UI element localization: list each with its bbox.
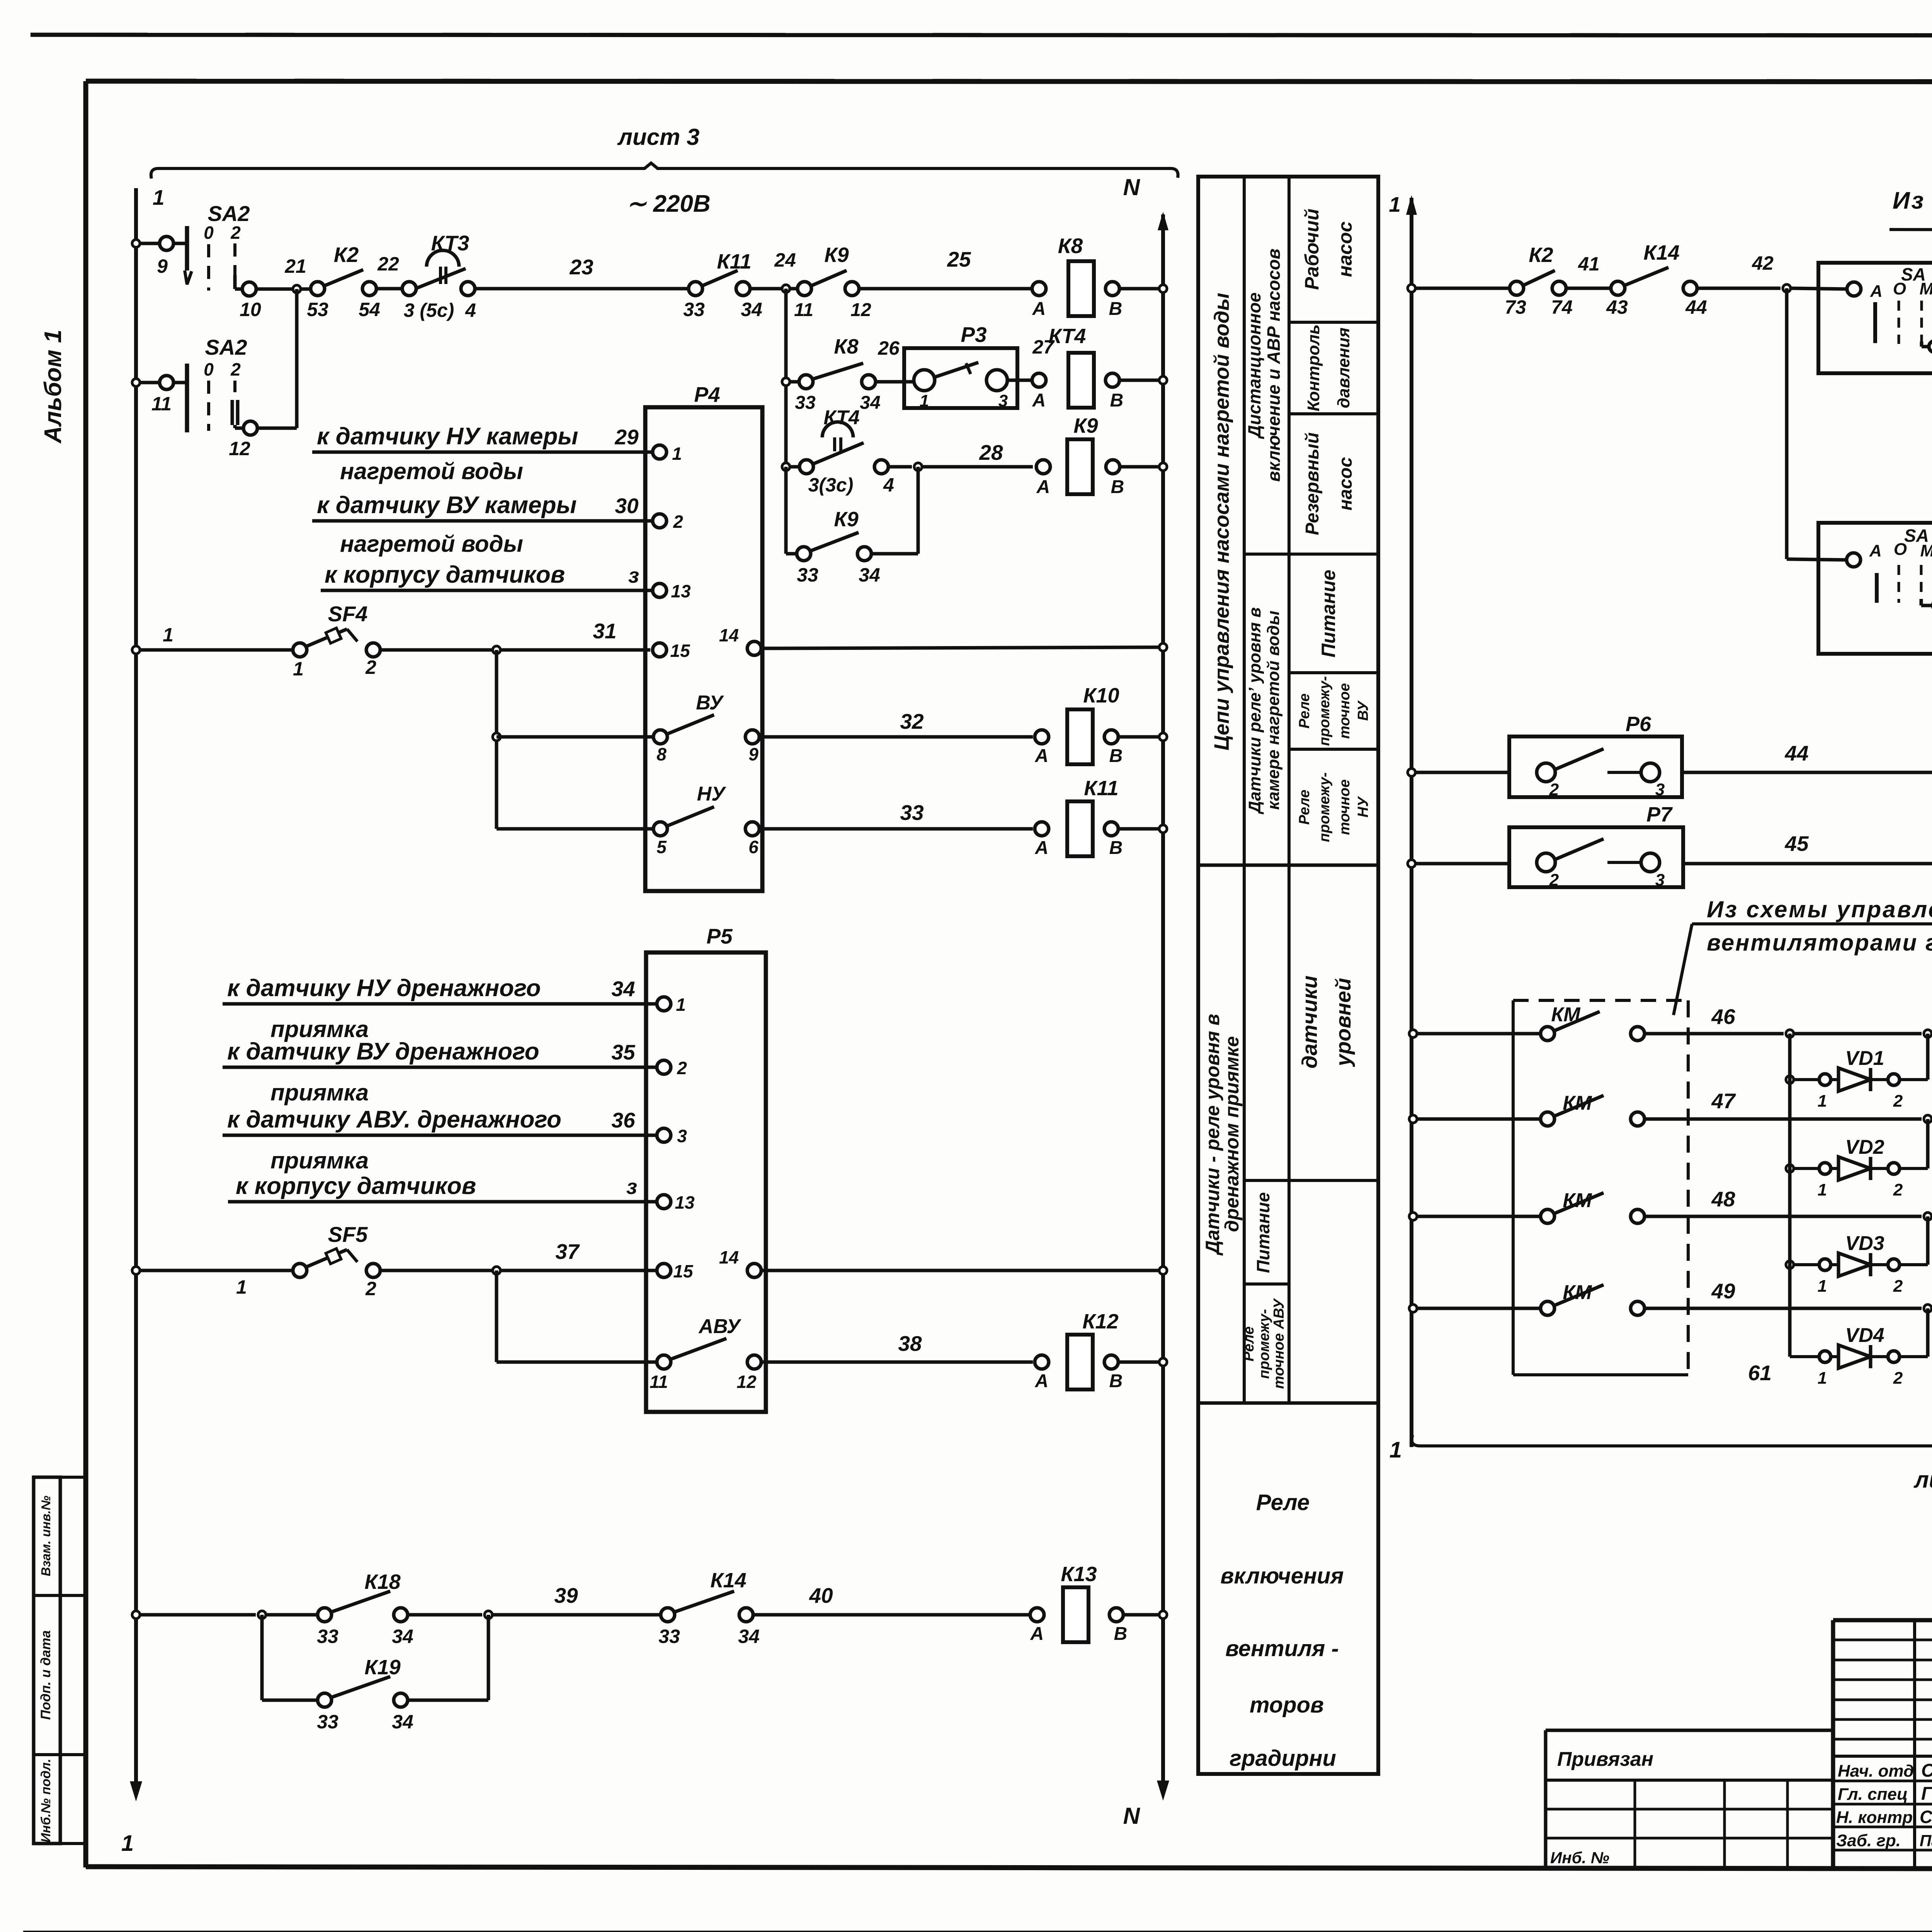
svg-text:32: 32 <box>900 709 924 733</box>
svg-text:1: 1 <box>293 658 304 680</box>
vertical 42 branch down to SA box 2 <box>1785 288 1789 559</box>
svg-text:А: А <box>1032 299 1046 319</box>
svg-text:34: 34 <box>738 1626 760 1647</box>
bus 1 left phase <box>134 188 138 1793</box>
svg-text:44: 44 <box>1784 741 1808 765</box>
switch SA2 lower common bar <box>185 364 189 432</box>
svg-text:Питание: Питание <box>1318 570 1339 657</box>
svg-text:К2: К2 <box>1529 243 1553 267</box>
contact K18 row <box>132 1611 140 1619</box>
wire 33 relay K11 coil <box>760 827 1033 831</box>
left margin sidebar strip <box>34 1477 60 1844</box>
wire 42 <box>1696 287 1781 290</box>
contact KM row 48 <box>1409 1213 1417 1220</box>
svg-text:промежу-: промежу- <box>1316 676 1333 746</box>
auxiliary switch P6 <box>1408 769 1415 776</box>
svg-text:35: 35 <box>611 1040 636 1064</box>
wire from node 21 down to SA2 lower output 12 <box>295 289 299 428</box>
svg-text:3: 3 <box>1655 871 1665 889</box>
svg-text:2: 2 <box>1549 780 1559 799</box>
svg-text:54: 54 <box>359 299 380 320</box>
svg-text:44: 44 <box>1685 296 1707 318</box>
svg-text:34: 34 <box>392 1626 413 1647</box>
svg-text:1: 1 <box>1389 192 1401 216</box>
svg-text:В: В <box>1109 838 1123 858</box>
svg-text:НУ: НУ <box>697 783 727 805</box>
svg-text:SA2: SA2 <box>205 335 247 359</box>
contact K19 parallel branch <box>260 1615 264 1700</box>
selector switch SA enclosure box 2 <box>1818 523 1932 654</box>
svg-text:48: 48 <box>1711 1187 1735 1211</box>
relay coil K9 <box>1036 460 1050 474</box>
contact АВУ in P5 <box>657 1355 671 1369</box>
brace лист 5 <box>1412 1435 1932 1456</box>
svg-text:1: 1 <box>1818 1092 1827 1111</box>
contact KT4 row3 with time symbol <box>782 463 790 471</box>
svg-text:24: 24 <box>774 249 796 271</box>
svg-text:А: А <box>1035 746 1049 766</box>
svg-text:торов: торов <box>1250 1692 1324 1718</box>
svg-text:33: 33 <box>683 299 705 320</box>
svg-text:34: 34 <box>859 564 880 586</box>
terminal 12 lower SA2 <box>243 421 257 435</box>
svg-text:А: А <box>1035 838 1049 858</box>
svg-text:О: О <box>1894 540 1907 559</box>
chain vertical row1-row3 <box>784 289 788 467</box>
wire into P3 <box>875 380 913 384</box>
svg-text:3: 3 <box>677 1126 687 1146</box>
svg-text:Из схемы управления вентиля: Из схемы управления вентилятора- <box>1893 187 1932 214</box>
svg-text:N: N <box>1123 1803 1141 1829</box>
bus N left neutral <box>1161 214 1165 1792</box>
wire 44 relay K14 coil <box>1682 771 1932 774</box>
contact K11 row1 <box>689 282 702 296</box>
svg-text:33: 33 <box>658 1626 680 1647</box>
svg-text:13: 13 <box>675 1192 695 1213</box>
wire 31 <box>379 648 650 652</box>
svg-text:АВУ: АВУ <box>698 1315 742 1338</box>
selector switch SA upper <box>1847 282 1861 296</box>
svg-text:0: 0 <box>204 359 214 379</box>
diode VD1 <box>1786 1076 1794 1083</box>
svg-text:1: 1 <box>121 1831 134 1856</box>
svg-text:1: 1 <box>676 995 686 1015</box>
brace лист 3 <box>151 163 1178 179</box>
branch SF5 down to АВУ contact <box>493 1267 500 1274</box>
contact KM row 49 <box>1409 1304 1417 1312</box>
terminal 3(5c) <box>402 282 416 296</box>
diode VD4 <box>1788 1034 1792 1357</box>
svg-text:з: з <box>628 563 639 587</box>
svg-text:30: 30 <box>615 494 639 518</box>
svg-text:40: 40 <box>809 1583 833 1607</box>
svg-text:давления: давления <box>1334 327 1353 408</box>
svg-text:К18: К18 <box>364 1570 400 1594</box>
svg-text:к корпусу датчиков: к корпусу датчиков <box>325 561 565 588</box>
svg-text:33: 33 <box>317 1626 338 1647</box>
svg-text:Рабочий: Рабочий <box>1301 209 1323 290</box>
svg-text:К9: К9 <box>834 508 858 531</box>
svg-text:Р5: Р5 <box>706 924 733 948</box>
svg-text:14: 14 <box>719 625 739 645</box>
svg-text:2: 2 <box>365 656 376 678</box>
wire 40 relay K13 coil <box>752 1613 1031 1617</box>
svg-text:ВУ: ВУ <box>1355 700 1371 721</box>
svg-text:К19: К19 <box>364 1656 400 1679</box>
svg-text:Дистанционное: Дистанционное <box>1244 293 1264 439</box>
svg-text:4: 4 <box>883 474 894 496</box>
wire 24 <box>749 287 798 291</box>
svg-text:А: А <box>1035 1371 1049 1391</box>
svg-text:В: В <box>1110 390 1124 411</box>
svg-text:23: 23 <box>569 255 593 279</box>
svg-text:47: 47 <box>1711 1089 1736 1113</box>
svg-text:33: 33 <box>795 393 816 413</box>
sheet outer border bottom <box>23 1931 1932 1932</box>
svg-text:11: 11 <box>151 393 172 415</box>
svg-text:2: 2 <box>230 359 241 379</box>
contact НУ in P4 <box>653 822 667 836</box>
svg-text:2: 2 <box>673 512 683 532</box>
terminal 4 row3 <box>874 460 888 474</box>
svg-text:приямка: приямка <box>270 1148 369 1173</box>
terminal 4 row1 <box>461 282 475 296</box>
svg-text:34: 34 <box>860 393 880 413</box>
svg-text:промежу-: промежу- <box>1316 772 1333 842</box>
svg-text:74: 74 <box>1551 296 1573 318</box>
wire 32 relay K10 <box>760 735 1033 739</box>
svg-text:SF5: SF5 <box>328 1222 368 1247</box>
svg-text:0: 0 <box>204 223 214 243</box>
svg-text:33: 33 <box>797 564 818 586</box>
svg-text:Из схемы управления: Из схемы управления <box>1707 896 1932 922</box>
svg-text:1: 1 <box>920 391 929 410</box>
svg-text:О: О <box>1893 279 1906 298</box>
svg-text:лист 3: лист 3 <box>617 124 700 150</box>
svg-text:уровней: уровней <box>1331 978 1355 1067</box>
svg-text:К8: К8 <box>834 335 858 358</box>
svg-text:насос: насос <box>1335 457 1356 510</box>
svg-text:А: А <box>1870 282 1883 301</box>
contact K2 row1 <box>311 282 325 296</box>
switch SA2 upper common bar <box>185 226 189 270</box>
svg-text:45: 45 <box>1784 832 1809 855</box>
svg-text:М: М <box>1920 541 1932 560</box>
wire 27 <box>1007 379 1033 382</box>
breaker SF5 <box>132 1267 140 1274</box>
svg-text:В: В <box>1109 1371 1123 1391</box>
svg-text:1: 1 <box>1818 1277 1827 1296</box>
inner drawing frame <box>86 81 1932 82</box>
KM linkage dashed box <box>1513 999 1688 1002</box>
svg-text:КМ: КМ <box>1551 1003 1581 1026</box>
svg-text:VD1: VD1 <box>1845 1047 1884 1070</box>
svg-text:4: 4 <box>465 299 476 321</box>
wire 28 <box>888 465 912 469</box>
svg-text:38: 38 <box>898 1332 922 1355</box>
svg-text:камере нагретой воды: камере нагретой воды <box>1264 611 1283 810</box>
auxiliary switch P7 <box>1408 860 1415 867</box>
svg-text:Реле: Реле <box>1296 790 1313 825</box>
svg-text:К12: К12 <box>1082 1310 1118 1333</box>
svg-text:Привязан: Привязан <box>1557 1748 1653 1770</box>
svg-text:Семин: Семин <box>1921 1760 1932 1781</box>
svg-text:5: 5 <box>656 837 667 857</box>
svg-text:2: 2 <box>1893 1180 1903 1199</box>
svg-text:К14: К14 <box>710 1569 746 1592</box>
svg-text:А: А <box>1032 390 1046 411</box>
svg-text:11: 11 <box>650 1372 668 1392</box>
switch SA2 upper section terminal 9 <box>132 240 140 247</box>
switch SA2 lower position lines <box>207 381 210 431</box>
svg-text:SA2: SA2 <box>208 201 250 226</box>
svg-text:29: 29 <box>614 425 639 449</box>
svg-text:А: А <box>1036 477 1050 497</box>
branch SF4 down to ВУ НУ contacts <box>493 646 500 654</box>
relay block P4 <box>645 407 762 891</box>
svg-text:10: 10 <box>240 299 261 320</box>
terminal 14 P5 wire to N <box>747 1264 761 1277</box>
svg-text:9: 9 <box>157 255 168 277</box>
svg-text:Инб.№ подл.: Инб.№ подл. <box>39 1759 53 1842</box>
svg-text:КТ4: КТ4 <box>823 406 859 429</box>
svg-text:39: 39 <box>554 1583 578 1607</box>
terminal 14 wire to N <box>747 641 761 655</box>
svg-text:Датчики релеʼ уровня в: Датчики релеʼ уровня в <box>1245 607 1264 815</box>
svg-text:НУ: НУ <box>1355 796 1371 817</box>
svg-text:градирни: градирни <box>1230 1746 1336 1771</box>
svg-text:приямка: приямка <box>270 1080 369 1105</box>
svg-text:вентиля -: вентиля - <box>1225 1636 1339 1661</box>
svg-text:SF4: SF4 <box>328 602 368 626</box>
svg-text:2: 2 <box>230 223 241 243</box>
relay block P5 <box>646 952 766 1412</box>
svg-text:вентиляторами градирни ..: вентиляторами градирни .. <box>1707 930 1932 956</box>
strip Привязан <box>1546 1729 1833 1732</box>
svg-text:34: 34 <box>741 299 762 320</box>
svg-text:Р4: Р4 <box>694 383 720 406</box>
svg-text:53: 53 <box>307 299 328 320</box>
svg-text:3 (5с): 3 (5с) <box>404 299 454 321</box>
leader line to KM box <box>1673 924 1692 1015</box>
wire 38 relay K12 coil <box>760 1361 1033 1364</box>
svg-text:точное: точное <box>1337 683 1353 739</box>
relay coil KT4 <box>1032 373 1046 387</box>
svg-text:К10: К10 <box>1083 684 1119 707</box>
svg-text:нагретой воды: нагретой воды <box>340 458 523 484</box>
svg-text:2: 2 <box>1893 1369 1903 1388</box>
svg-text:33: 33 <box>317 1711 338 1733</box>
svg-text:11: 11 <box>794 300 813 320</box>
wire 23 <box>474 287 689 291</box>
svg-text:1: 1 <box>672 444 682 464</box>
selector switch SA lower <box>1847 553 1861 567</box>
svg-text:8: 8 <box>656 744 667 764</box>
svg-text:Реле: Реле <box>1256 1490 1310 1515</box>
svg-text:Р3: Р3 <box>961 323 986 347</box>
svg-text:М: М <box>1920 279 1932 298</box>
svg-text:датчики: датчики <box>1298 976 1321 1069</box>
middle table verticals <box>1243 177 1246 1403</box>
svg-text:Реле: Реле <box>1296 694 1313 729</box>
svg-text:В: В <box>1109 746 1123 766</box>
svg-text:К13: К13 <box>1061 1563 1097 1586</box>
svg-text:К14: К14 <box>1643 241 1679 264</box>
svg-text:Цепи управления насосами: Цепи управления насосами нагретой воды <box>1210 293 1233 751</box>
svg-text:VD4: VD4 <box>1845 1324 1884 1347</box>
svg-text:25: 25 <box>947 247 971 271</box>
svg-text:28: 28 <box>979 440 1003 464</box>
wire 22 <box>376 287 403 291</box>
sheet outer border top <box>31 35 1932 36</box>
svg-text:КТ4: КТ4 <box>1049 325 1086 348</box>
svg-text:VD2: VD2 <box>1845 1136 1884 1158</box>
svg-text:А: А <box>1030 1624 1044 1644</box>
svg-text:2: 2 <box>365 1278 376 1299</box>
svg-text:нагретой воды: нагретой воды <box>340 531 523 557</box>
svg-text:61: 61 <box>1748 1361 1772 1385</box>
svg-text:к датчику НУ камеры: к датчику НУ камеры <box>317 423 578 450</box>
contact KM row 46 <box>1409 1030 1417 1037</box>
svg-text:Сиганова: Сиганова <box>1920 1807 1932 1827</box>
contact ВУ in P4 <box>653 730 667 744</box>
pressure switch P3 box <box>904 348 1017 408</box>
wire 45 relay K15 coil <box>1683 862 1932 866</box>
svg-text:1: 1 <box>1389 1437 1402 1463</box>
svg-text:3: 3 <box>998 391 1008 410</box>
row 41-42 contact K2 <box>1408 284 1415 292</box>
svg-text:к датчику АВУ. дренажного: к датчику АВУ. дренажного <box>227 1106 561 1133</box>
svg-text:3: 3 <box>1655 780 1665 799</box>
svg-text:37: 37 <box>555 1240 580 1264</box>
svg-text:42: 42 <box>1752 252 1774 274</box>
svg-text:Заб. гр.: Заб. гр. <box>1836 1831 1901 1850</box>
svg-text:К9: К9 <box>1073 414 1098 437</box>
svg-text:Гл. спец: Гл. спец <box>1838 1785 1908 1804</box>
svg-text:73: 73 <box>1505 296 1526 318</box>
diode VD3 <box>1786 1261 1794 1269</box>
svg-text:дренажном приямке: дренажном приямке <box>1221 1036 1243 1232</box>
svg-text:26: 26 <box>878 337 900 359</box>
wire 25 <box>858 287 1033 291</box>
switch SA2 lower position-2 solid mark <box>231 400 234 425</box>
middle table cell dividers lower <box>1244 1179 1378 1182</box>
wire segment 21-53 <box>301 287 311 291</box>
svg-text:Р6: Р6 <box>1626 713 1651 736</box>
svg-text:К11: К11 <box>717 250 751 273</box>
svg-text:34: 34 <box>392 1711 413 1733</box>
svg-text:31: 31 <box>593 619 616 643</box>
contact K14 bottom row <box>661 1608 675 1622</box>
svg-text:насос: насос <box>1334 221 1356 277</box>
svg-text:В: В <box>1109 299 1122 319</box>
svg-text:13: 13 <box>671 581 691 601</box>
wire 37 <box>379 1269 657 1272</box>
contact KM row 47 <box>1409 1115 1417 1123</box>
svg-text:к датчику ВУ дренажного: к датчику ВУ дренажного <box>227 1038 539 1065</box>
middle table cell dividers upper <box>1289 321 1378 324</box>
svg-text:Резервный: Резервный <box>1302 432 1323 535</box>
svg-text:К8: К8 <box>1058 234 1083 258</box>
svg-text:46: 46 <box>1711 1005 1735 1029</box>
svg-text:Н. контр: Н. контр <box>1836 1808 1913 1827</box>
svg-text:промежу-: промежу- <box>1256 1309 1272 1379</box>
svg-text:Датчики - реле уровня в: Датчики - реле уровня в <box>1202 1014 1223 1256</box>
title block outline <box>1833 1618 1932 1622</box>
svg-text:К9: К9 <box>824 243 849 267</box>
switch SA2 upper position lines <box>207 244 210 291</box>
svg-text:∼ 220В: ∼ 220В <box>626 190 710 217</box>
svg-text:2: 2 <box>1893 1092 1903 1111</box>
svg-text:2: 2 <box>1549 871 1559 889</box>
svg-text:Взам. инв.№: Взам. инв.№ <box>39 1495 53 1576</box>
svg-text:22: 22 <box>377 253 399 275</box>
svg-text:14: 14 <box>719 1247 739 1267</box>
svg-text:15: 15 <box>673 1261 694 1281</box>
svg-text:43: 43 <box>1606 296 1628 318</box>
diode VD2 <box>1786 1165 1794 1172</box>
svg-text:Нач. отд: Нач. отд <box>1838 1762 1914 1781</box>
svg-text:1: 1 <box>163 624 173 646</box>
breaker SF4 <box>132 646 140 654</box>
svg-text:1: 1 <box>153 185 165 209</box>
svg-text:21: 21 <box>284 255 306 277</box>
svg-text:9: 9 <box>748 744 759 764</box>
svg-text:Парамонова: Парамонова <box>1920 1832 1932 1850</box>
svg-text:Контроль: Контроль <box>1304 324 1323 411</box>
relay coil K8 <box>1032 282 1046 296</box>
svg-text:1: 1 <box>1818 1369 1827 1388</box>
svg-text:КМ: КМ <box>1563 1092 1592 1114</box>
svg-text:12: 12 <box>850 300 871 320</box>
svg-text:К2: К2 <box>334 243 359 267</box>
svg-text:41: 41 <box>1578 253 1600 275</box>
svg-text:включение и АВР насосов: включение и АВР насосов <box>1264 248 1284 482</box>
wire row1 to junction 21 <box>256 287 297 291</box>
terminal 10 <box>235 287 243 291</box>
svg-text:36: 36 <box>611 1108 635 1132</box>
svg-text:к датчику НУ дренажного: к датчику НУ дренажного <box>227 975 541 1002</box>
svg-text:КМ: КМ <box>1563 1189 1592 1212</box>
svg-text:34: 34 <box>611 977 635 1001</box>
contact K8 row2 <box>782 378 790 386</box>
svg-text:В: В <box>1111 477 1124 497</box>
svg-text:1: 1 <box>236 1276 247 1298</box>
svg-text:з: з <box>626 1175 637 1199</box>
svg-text:ВУ: ВУ <box>696 692 724 714</box>
svg-text:33: 33 <box>900 801 923 825</box>
svg-text:Р7: Р7 <box>1646 803 1673 826</box>
selector switch SA enclosure box 1 <box>1818 263 1932 373</box>
svg-text:2: 2 <box>677 1058 687 1078</box>
svg-text:15: 15 <box>670 641 690 661</box>
svg-text:КМ: КМ <box>1563 1281 1592 1304</box>
svg-text:2: 2 <box>1893 1277 1903 1296</box>
title block small grid <box>1833 1639 1932 1641</box>
svg-text:Альбом 1: Альбом 1 <box>40 330 66 444</box>
svg-text:Подп. и дата: Подп. и дата <box>38 1630 53 1720</box>
svg-text:К11: К11 <box>1084 777 1118 800</box>
svg-text:VD3: VD3 <box>1845 1232 1884 1255</box>
middle function table outline <box>1198 177 1378 1774</box>
svg-text:к корпусу датчиков: к корпусу датчиков <box>236 1173 476 1199</box>
svg-text:1: 1 <box>1818 1180 1827 1199</box>
svg-text:12: 12 <box>229 438 250 459</box>
svg-text:лист 5: лист 5 <box>1913 1467 1932 1493</box>
svg-text:включения: включения <box>1220 1563 1344 1588</box>
svg-text:N: N <box>1123 174 1141 200</box>
svg-text:3(3с): 3(3с) <box>808 474 854 496</box>
